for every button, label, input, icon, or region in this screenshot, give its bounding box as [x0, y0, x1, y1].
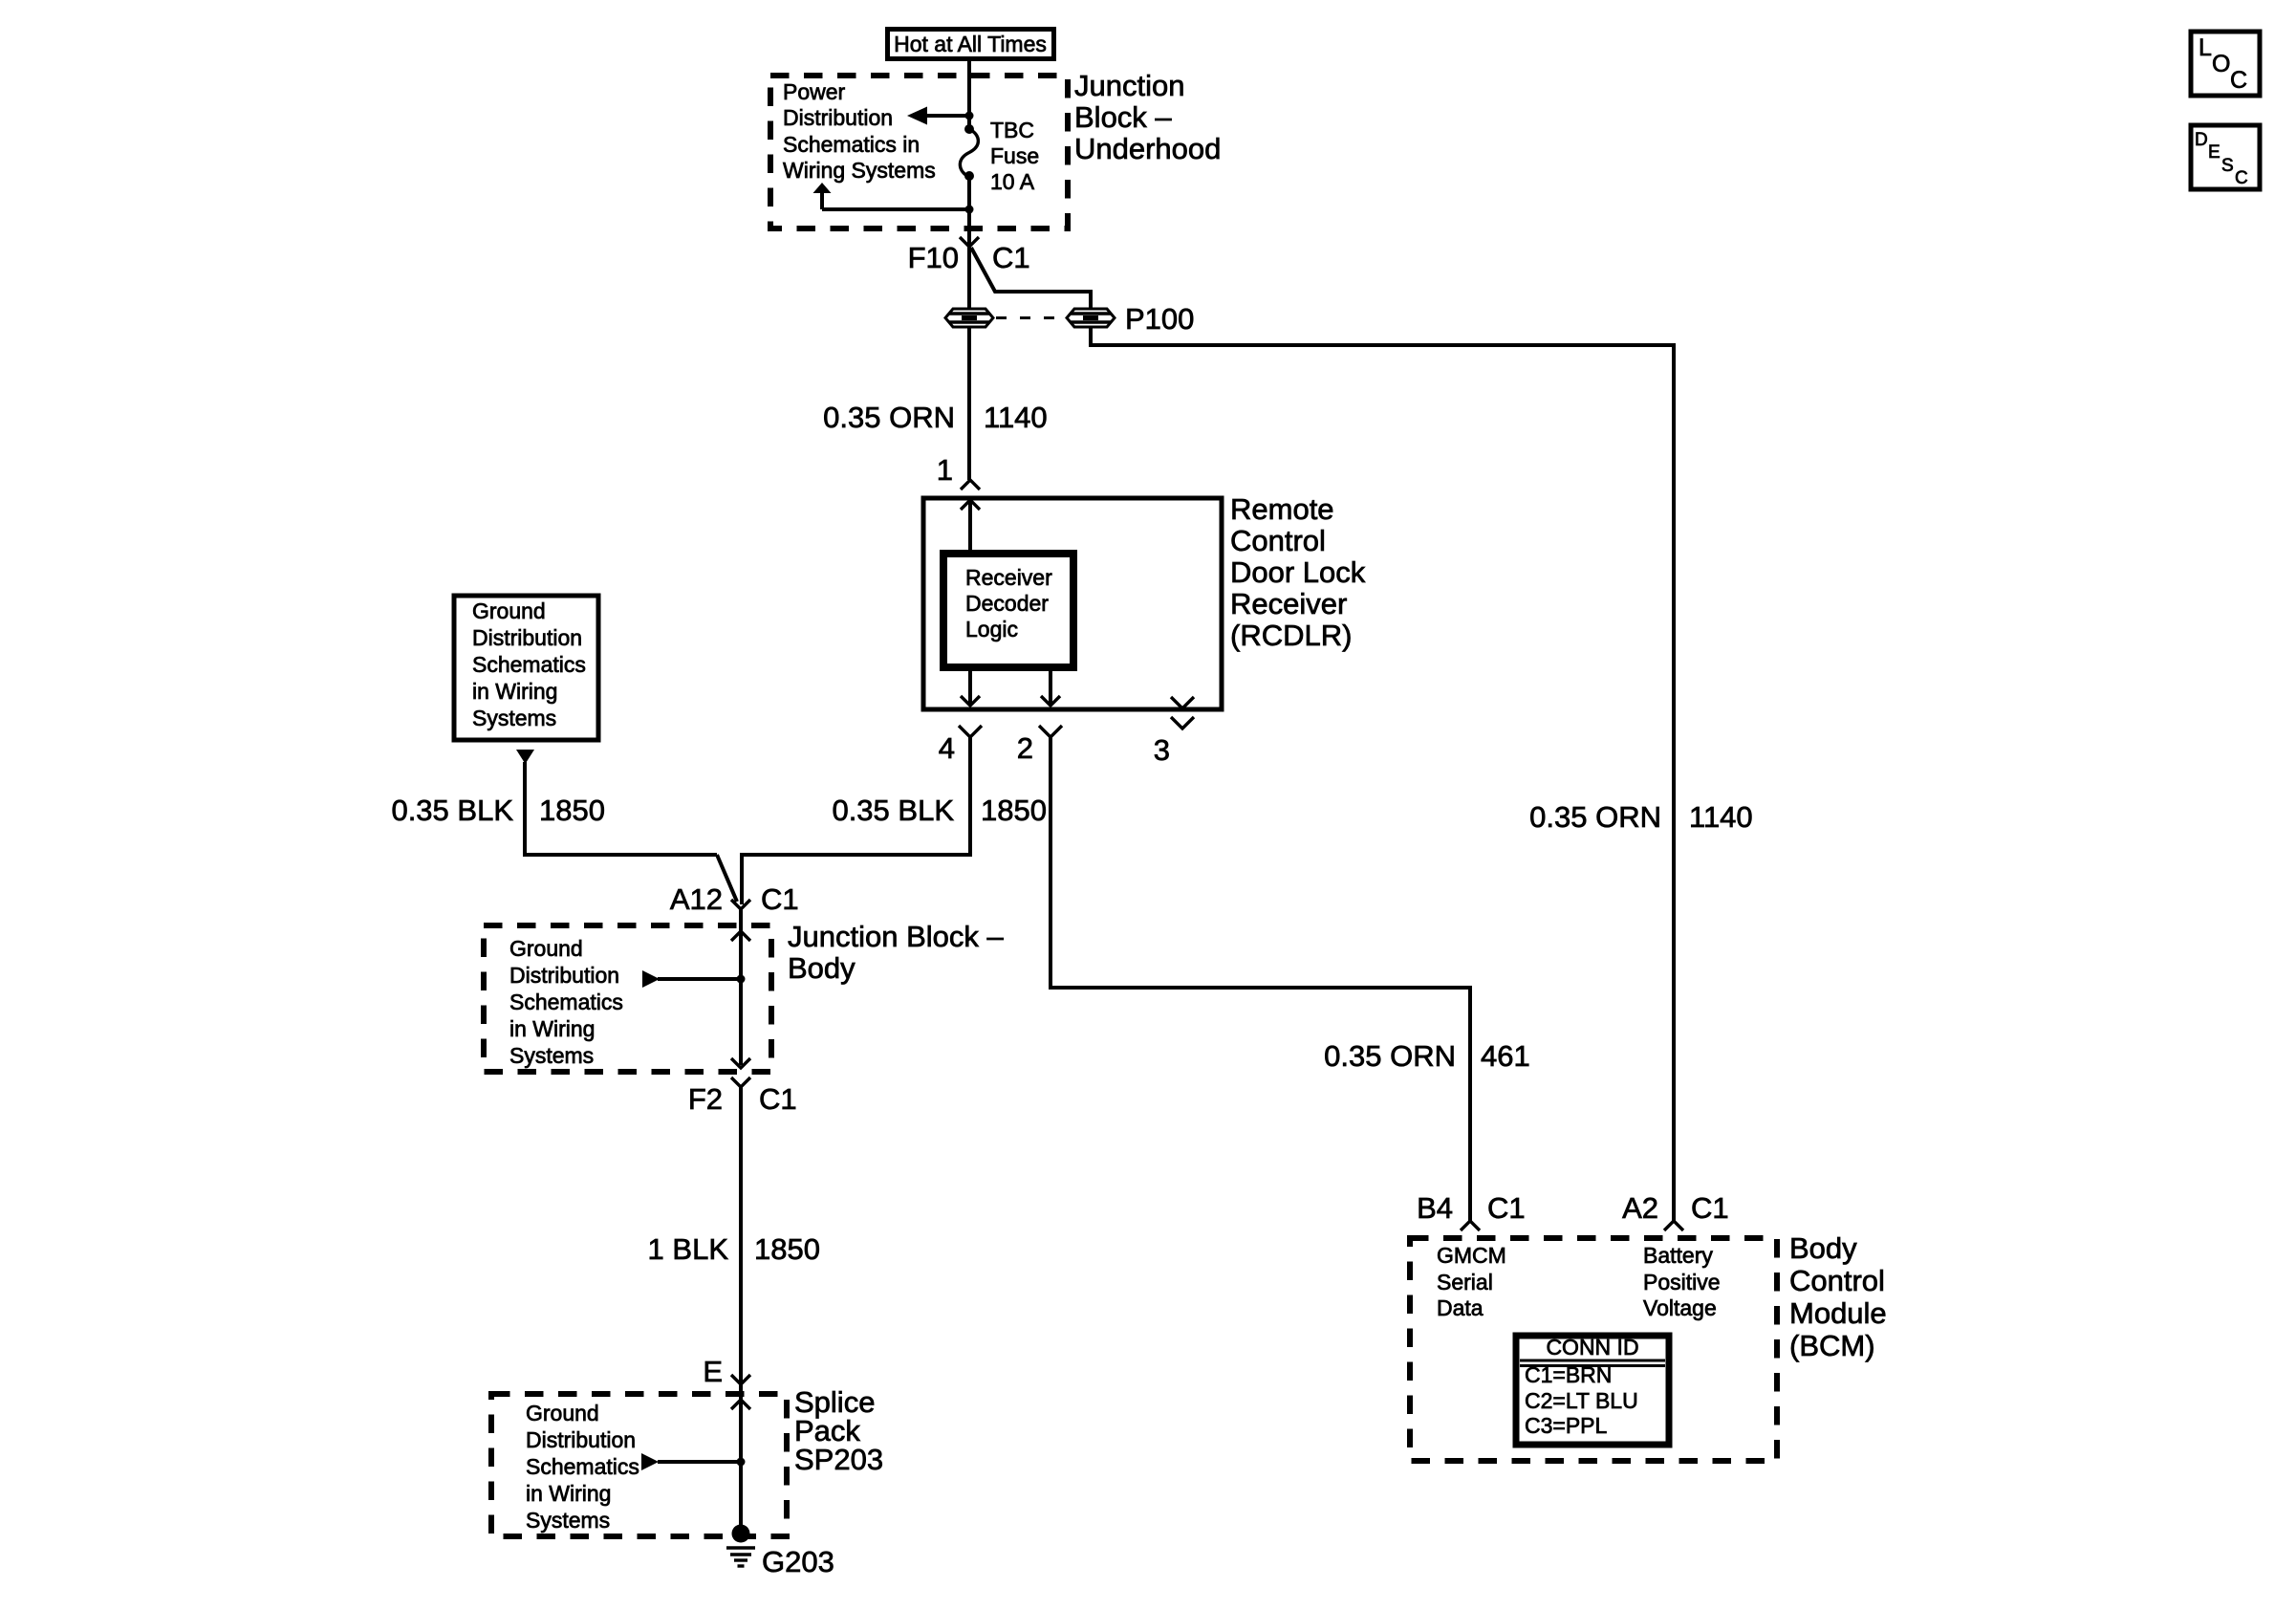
svg-text:1 BLK: 1 BLK: [648, 1232, 729, 1266]
svg-text:Hot at All Times: Hot at All Times: [894, 32, 1047, 56]
arrow: down triangle below ground box: [516, 750, 534, 764]
wire: branch from F10 to P100 right grommet: [971, 248, 1091, 309]
pin 4 connector below box: [959, 726, 982, 737]
svg-text:C: C: [2235, 168, 2248, 188]
svg-text:A12: A12: [670, 882, 723, 916]
arrow: up arrowhead inside splice top: [731, 1400, 750, 1409]
svg-text:in Wiring: in Wiring: [509, 1016, 595, 1041]
svg-text:Power: Power: [783, 79, 846, 104]
svg-text:Decoder: Decoder: [965, 591, 1049, 616]
svg-text:Serial: Serial: [1437, 1270, 1493, 1295]
svg-text:E: E: [703, 1355, 723, 1388]
svg-text:in Wiring: in Wiring: [526, 1481, 611, 1506]
internal wire to pin 2 with down arrow: [1041, 667, 1060, 706]
label: Junction Block - Body: [788, 920, 1004, 985]
svg-text:Remote: Remote: [1230, 492, 1334, 526]
CONN ID table: [1516, 1335, 1669, 1445]
junction node and branch in splice pack: [641, 1453, 746, 1470]
wire: F2 down to splice pack: [739, 1087, 743, 1384]
svg-text:10 A: 10 A: [990, 169, 1035, 194]
svg-text:Logic: Logic: [965, 617, 1018, 642]
wire: through junction block body: [739, 909, 743, 1065]
svg-text:C1: C1: [759, 1082, 797, 1116]
svg-text:B4: B4: [1417, 1191, 1453, 1225]
svg-text:Data: Data: [1437, 1295, 1484, 1320]
wire: RCDLR pin 2 serial data to BCM B4: [1051, 737, 1470, 1221]
label box: Hot at All Times: [888, 30, 1054, 59]
svg-text:Wiring Systems: Wiring Systems: [783, 158, 936, 183]
svg-text:1850: 1850: [981, 794, 1047, 827]
svg-text:F2: F2: [688, 1082, 723, 1116]
svg-text:Control: Control: [1789, 1264, 1885, 1297]
wire: ground box lead down and right: [525, 762, 717, 855]
svg-text:1140: 1140: [984, 401, 1048, 434]
svg-text:C1: C1: [992, 241, 1030, 274]
svg-text:GMCM: GMCM: [1437, 1243, 1506, 1268]
arrow: down arrowhead inside box bottom: [731, 1058, 750, 1068]
ground distribution reference box (solid): [454, 596, 598, 740]
svg-text:Schematics: Schematics: [526, 1454, 639, 1479]
label: Body Control Module (BCM): [1789, 1231, 1887, 1362]
svg-text:Junction: Junction: [1074, 69, 1184, 102]
svg-text:G203: G203: [762, 1545, 834, 1578]
svg-text:C3=PPL: C3=PPL: [1525, 1413, 1608, 1438]
svg-text:Systems: Systems: [509, 1043, 594, 1068]
svg-text:Distribution: Distribution: [509, 963, 619, 988]
wire label 0.35 ORN 461: [1324, 1039, 1530, 1073]
junction block underhood dashed box: [770, 76, 1068, 228]
connector B4 / C1: [1417, 1191, 1526, 1230]
svg-text:Positive: Positive: [1643, 1270, 1721, 1295]
internal wire pin1 with up arrow: [961, 500, 980, 554]
svg-text:C1: C1: [1691, 1191, 1729, 1225]
internal wire to pin 4 with down arrow: [961, 667, 980, 706]
wire label 1 BLK 1850: [648, 1232, 820, 1266]
svg-text:Schematics: Schematics: [472, 652, 586, 677]
wire: RCDLR pin 4 to junction block body: [742, 737, 970, 904]
svg-text:Receiver: Receiver: [965, 565, 1052, 590]
LOC reference box: [2191, 32, 2260, 96]
junction block body dashed box: [484, 925, 771, 1072]
svg-text:L: L: [2199, 34, 2212, 61]
junction node and branch to ground distribution: [642, 970, 746, 988]
label: Junction Block - Underhood: [1074, 69, 1221, 165]
svg-text:3: 3: [1154, 733, 1170, 767]
svg-text:D: D: [2195, 130, 2208, 150]
pin function: GMCM Serial Data: [1437, 1243, 1506, 1320]
svg-text:in Wiring: in Wiring: [472, 679, 557, 704]
svg-text:TBC: TBC: [990, 118, 1034, 142]
svg-text:0.35 ORN: 0.35 ORN: [823, 401, 955, 434]
svg-text:E: E: [2208, 142, 2220, 163]
svg-text:Systems: Systems: [526, 1508, 610, 1533]
pin function: Battery Positive Voltage: [1643, 1243, 1721, 1320]
svg-text:1850: 1850: [539, 794, 605, 827]
svg-text:C1: C1: [761, 882, 799, 916]
label: Remote Control Door Lock Receiver (RCDLR): [1230, 492, 1366, 652]
connector E: [703, 1355, 750, 1388]
svg-text:Receiver: Receiver: [1230, 587, 1347, 620]
svg-text:A2: A2: [1622, 1191, 1658, 1225]
wire: diagonal into A12: [717, 855, 737, 902]
svg-text:F10: F10: [908, 241, 959, 274]
svg-text:Schematics: Schematics: [509, 990, 623, 1014]
svg-text:Ground: Ground: [526, 1401, 599, 1425]
body control module dashed box: [1410, 1238, 1777, 1461]
svg-text:1140: 1140: [1689, 800, 1753, 834]
wire label 0.35 ORN 1140 (right): [1529, 800, 1753, 834]
svg-text:Fuse: Fuse: [990, 143, 1039, 168]
svg-text:Distribution: Distribution: [783, 105, 893, 130]
svg-text:4: 4: [939, 731, 955, 765]
ground G203: [726, 1525, 834, 1579]
svg-text:Body: Body: [1789, 1231, 1857, 1265]
arrow: feed to power distribution (left): [907, 107, 974, 125]
svg-text:0.35 ORN: 0.35 ORN: [1324, 1039, 1456, 1073]
connector A12 / C1: [670, 882, 799, 916]
svg-text:Block –: Block –: [1074, 100, 1172, 134]
svg-text:Battery: Battery: [1643, 1243, 1713, 1268]
svg-text:1: 1: [937, 453, 953, 487]
svg-text:0.35 ORN: 0.35 ORN: [1529, 800, 1661, 834]
wire label 0.35 BLK 1850 (left): [391, 794, 605, 827]
svg-text:S: S: [2221, 156, 2234, 176]
connector F2 / C1: [688, 1077, 797, 1116]
connector pass-through P100 (left grommet): [945, 309, 993, 327]
wire: battery feed vertical (Hot box to fuse): [967, 61, 971, 129]
connector pass-through P100 (right grommet): [1067, 309, 1115, 327]
svg-text:Distribution: Distribution: [526, 1427, 636, 1452]
svg-text:0.35 BLK: 0.35 BLK: [391, 794, 513, 827]
note text inside splice pack: [526, 1401, 639, 1533]
svg-text:Voltage: Voltage: [1643, 1295, 1717, 1320]
connector A2 / C1: [1622, 1191, 1729, 1230]
svg-text:C2=LT BLU: C2=LT BLU: [1525, 1388, 1638, 1413]
wire label 0.35 ORN 1140 (top): [823, 401, 1048, 434]
wire: right battery run from P100 to BCM A2: [1091, 327, 1674, 1221]
svg-text:P100: P100: [1125, 302, 1194, 336]
svg-text:Ground: Ground: [509, 936, 583, 961]
DESC reference box: [2191, 125, 2260, 189]
svg-text:Door Lock: Door Lock: [1230, 555, 1366, 589]
svg-text:Junction Block –: Junction Block –: [788, 920, 1004, 953]
svg-text:0.35 BLK: 0.35 BLK: [832, 794, 954, 827]
pin 1 label and connector: [937, 453, 980, 490]
svg-text:Control: Control: [1230, 524, 1326, 557]
svg-text:(BCM): (BCM): [1789, 1329, 1875, 1362]
label: Splice Pack SP203: [794, 1385, 883, 1476]
svg-text:Ground: Ground: [472, 598, 546, 623]
RCDLR box: [923, 498, 1222, 709]
note text inside junction block body: [509, 936, 623, 1068]
note: Power Distribution Schematics in Wiring Systems: [783, 79, 936, 183]
svg-text:C: C: [2230, 67, 2247, 94]
splice pack dashed box: [491, 1394, 787, 1536]
wire: fuse output down to RCDLR pin 1: [967, 176, 971, 480]
svg-text:C1=BRN: C1=BRN: [1525, 1362, 1612, 1387]
arrow: feed from power distribution (up arrow, bottom-left): [813, 183, 974, 214]
Receiver Decoder Logic inner box: [943, 554, 1073, 667]
svg-text:Module: Module: [1789, 1296, 1887, 1330]
svg-text:1850: 1850: [754, 1232, 820, 1266]
svg-text:SP203: SP203: [794, 1443, 883, 1476]
svg-text:2: 2: [1017, 731, 1033, 765]
connector F10 / C1: [908, 237, 1030, 274]
svg-text:CONN ID: CONN ID: [1546, 1335, 1638, 1360]
svg-text:Systems: Systems: [472, 706, 556, 730]
svg-text:461: 461: [1481, 1039, 1530, 1073]
svg-text:C1: C1: [1487, 1191, 1526, 1225]
svg-text:Body: Body: [788, 951, 856, 985]
svg-text:Schematics in: Schematics in: [783, 132, 920, 157]
svg-text:(RCDLR): (RCDLR): [1230, 619, 1352, 652]
pin 3 connector (no wire): [1171, 697, 1194, 729]
dashed line between P100 grommets: [996, 316, 1067, 319]
svg-text:Underhood: Underhood: [1074, 132, 1221, 165]
fuse TBC Fuse 10 A: [960, 118, 1039, 194]
wire label 0.35 BLK 1850 (right): [832, 794, 1047, 827]
wire: through splice pack to ground: [739, 1384, 743, 1534]
arrow: up arrowhead inside box top: [731, 931, 750, 941]
pin 2 connector below box: [1039, 726, 1062, 737]
svg-text:O: O: [2212, 51, 2230, 77]
svg-text:Distribution: Distribution: [472, 625, 582, 650]
